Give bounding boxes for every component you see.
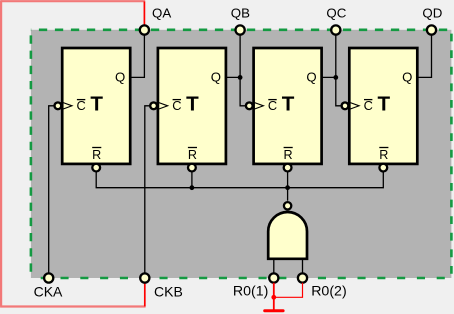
reset pin terminal U2 <box>188 164 196 172</box>
wire QA output from FF1 <box>130 30 144 77</box>
svg-text:Q: Q <box>402 70 412 85</box>
svg-text:QB: QB <box>231 6 250 21</box>
junction dot reset bus at NAND output <box>285 185 290 190</box>
label R-bar U1 <box>92 148 101 162</box>
wire R0(1) to ground <box>273 283 275 310</box>
terminal QC <box>331 25 340 34</box>
junction dot reset bus at FF2 <box>190 185 195 190</box>
clock inversion bubble U3 <box>246 102 253 109</box>
svg-text:R: R <box>92 148 101 162</box>
svg-text:R: R <box>379 148 388 162</box>
clock edge triangle U1 <box>63 103 72 109</box>
svg-text:QC: QC <box>326 6 346 21</box>
svg-text:T: T <box>186 92 199 115</box>
reset pin terminal U4 <box>379 164 387 172</box>
reset pin terminal U3 <box>284 164 292 172</box>
svg-text:QD: QD <box>422 6 442 21</box>
wire FF3 reset drop <box>287 172 289 188</box>
flip-flop U2 (T flip-flop) <box>158 48 226 164</box>
NAND output bubble <box>284 202 291 209</box>
label R-bar U2 <box>188 148 197 162</box>
NAND gate U5 <box>268 212 307 259</box>
clock edge triangle U2 <box>159 103 168 109</box>
svg-text:Q: Q <box>115 70 125 85</box>
svg-text:T: T <box>282 92 295 115</box>
label C-bar U4 <box>364 98 373 113</box>
clock inversion bubble U4 <box>342 102 349 109</box>
terminal QD <box>427 25 436 34</box>
IC body (74LS93 internal area) <box>31 30 452 278</box>
svg-text:QA: QA <box>152 6 171 21</box>
svg-text:T: T <box>90 92 103 115</box>
svg-text:C: C <box>364 98 373 113</box>
flip-flop U4 (T flip-flop) <box>349 48 417 164</box>
svg-text:CKB: CKB <box>154 283 183 299</box>
wire QD output from FF4 <box>417 30 431 77</box>
wire reset bus <box>96 172 383 188</box>
terminal QB <box>236 25 245 34</box>
label R-bar U4 <box>379 148 388 162</box>
terminal R0(1) <box>269 273 278 282</box>
clock inversion bubble U2 <box>150 102 157 109</box>
wire red riser from CKB terminal <box>144 283 146 307</box>
wire NAND input 2 stub <box>302 259 304 274</box>
junction dot on QC wire <box>333 75 338 80</box>
wire CKA to FF1 clock <box>49 106 55 274</box>
svg-text:C: C <box>268 98 277 113</box>
svg-text:Q: Q <box>306 70 316 85</box>
wire FF2 reset drop <box>191 172 193 188</box>
wire CKB to FF2 clock <box>145 106 150 274</box>
svg-text:C: C <box>77 98 86 113</box>
junction dot on QB wire <box>238 75 243 80</box>
svg-text:C: C <box>172 98 181 113</box>
terminal CKB <box>140 273 149 282</box>
reset pin terminal U1 <box>92 164 100 172</box>
wire red drop to QA terminal <box>143 2 145 26</box>
flip-flop U1 (T flip-flop) <box>62 48 130 164</box>
wire NAND input 1 stub <box>273 259 275 274</box>
svg-text:R: R <box>284 148 293 162</box>
flip-flop U3 (T flip-flop) <box>254 48 322 164</box>
clock edge triangle U3 <box>255 103 264 109</box>
label C-bar U3 <box>268 98 277 113</box>
svg-text:Q: Q <box>211 70 221 85</box>
svg-text:T: T <box>378 92 391 115</box>
wire R0(2) to ground <box>274 283 303 298</box>
svg-text:R0(1): R0(1) <box>233 283 268 299</box>
label R-bar U3 <box>284 148 293 162</box>
wire QC to FF4 clock <box>336 77 342 105</box>
ground symbol <box>263 309 284 312</box>
label C-bar U2 <box>172 98 181 113</box>
wire external feedback bottom segment <box>0 305 146 307</box>
wire external feedback left segment <box>0 0 2 306</box>
terminal CKA <box>44 273 53 282</box>
junction dot ground wire <box>271 295 276 300</box>
wire QB to FF3 clock <box>240 77 246 105</box>
wire QB output from FF2 <box>226 30 240 77</box>
svg-text:CKA: CKA <box>34 283 63 299</box>
terminal QA <box>140 25 149 34</box>
svg-text:R: R <box>188 148 197 162</box>
wire QC output from FF3 <box>322 30 336 77</box>
wire external feedback top segment <box>1 0 145 2</box>
clock edge triangle U4 <box>350 103 359 109</box>
wire NAND output to reset bus <box>287 188 289 201</box>
svg-text:R0(2): R0(2) <box>311 283 346 299</box>
terminal R0(2) <box>298 273 307 282</box>
label C-bar U1 <box>77 98 86 113</box>
clock inversion bubble U1 <box>55 102 62 109</box>
